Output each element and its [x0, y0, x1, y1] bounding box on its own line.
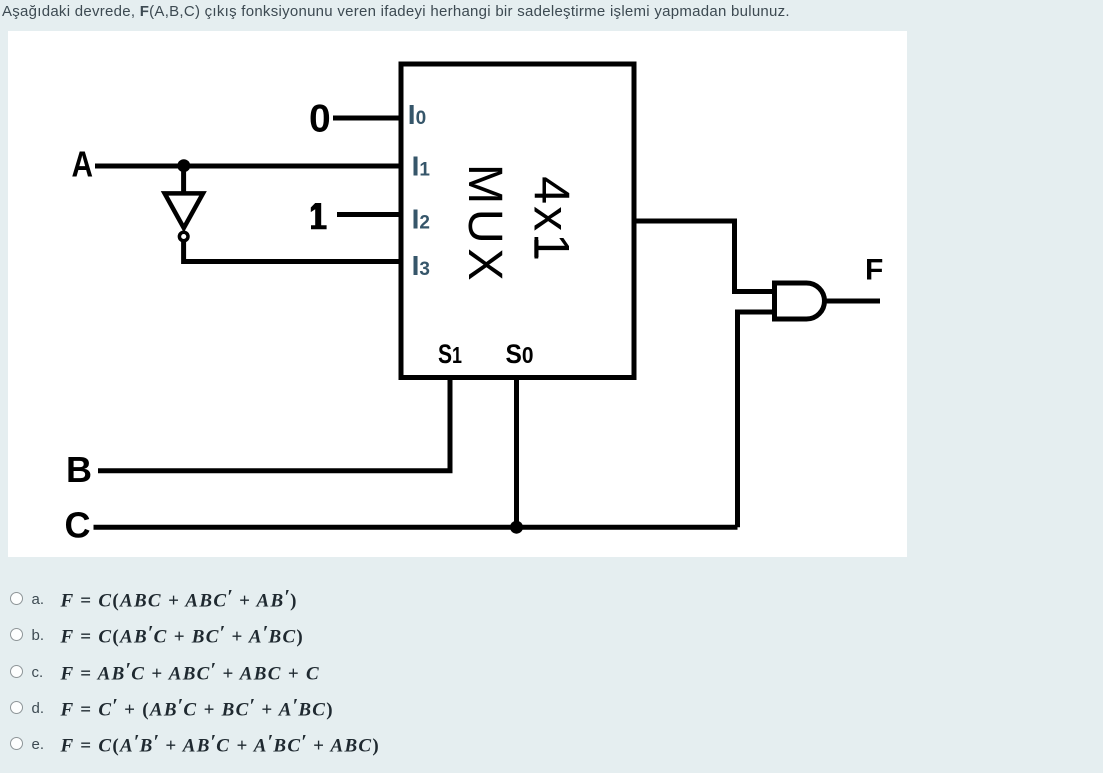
junction node C [510, 521, 523, 534]
svg-text:4x1: 4x1 [524, 176, 580, 263]
AND gate G2 [775, 283, 825, 319]
option e [0, 743, 1, 763]
inverter G1 triangle [165, 193, 203, 228]
wire B-to-S1 [98, 378, 450, 471]
svg-text:I3: I3 [412, 250, 430, 281]
svg-text:A: A [72, 144, 94, 185]
wire mux-output to AND upper input [634, 221, 772, 292]
svg-text:C: C [65, 505, 91, 546]
label 1 [311, 203, 327, 229]
svg-text:MUX: MUX [458, 164, 512, 285]
wire AND output to F [825, 299, 881, 304]
svg-text:B: B [66, 449, 92, 490]
option b [0, 634, 1, 654]
wire 0-to-I0 [333, 116, 401, 121]
svg-text:I2: I2 [412, 203, 430, 234]
svg-text:I0: I0 [408, 99, 426, 130]
mux U1 box [401, 64, 634, 378]
wire 1-to-I2 [337, 212, 401, 217]
option a [0, 598, 1, 618]
wire A-to-I1 [95, 164, 401, 169]
svg-text:I1: I1 [412, 150, 431, 181]
inverter G1 bubble [179, 232, 188, 241]
wire C-to-S0 [94, 525, 738, 530]
option d [0, 707, 1, 727]
wire inverter input [181, 166, 186, 193]
svg-text:S0: S0 [506, 339, 534, 369]
wire C-branch to AND lower input [738, 312, 773, 527]
junction node A [177, 159, 190, 172]
wire inverter-out-to-I3 [184, 242, 401, 262]
svg-text:F: F [865, 254, 883, 287]
option c [0, 671, 1, 691]
svg-text:0: 0 [309, 97, 331, 140]
wire S0 vertical [514, 378, 519, 528]
svg-text:S1: S1 [438, 339, 462, 369]
